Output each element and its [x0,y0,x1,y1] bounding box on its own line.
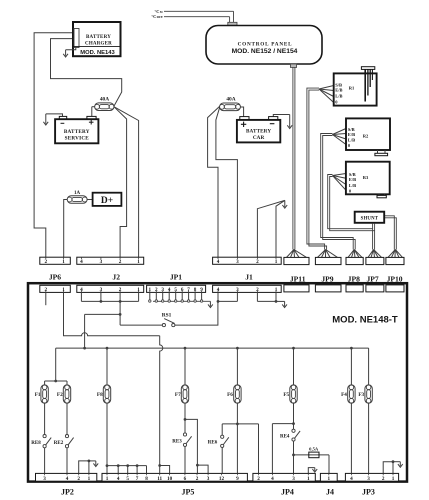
svg-text:JP4: JP4 [281,488,294,497]
svg-text:40A: 40A [100,97,109,103]
svg-text:J2: J2 [112,273,120,282]
svg-text:F6: F6 [227,392,233,398]
svg-text:L/B: L/B [335,94,342,99]
svg-text:F3: F3 [358,392,364,398]
svg-text:RE4: RE4 [280,434,290,439]
svg-text:2: 2 [119,259,122,265]
svg-text:4: 4 [168,287,171,293]
svg-text:2: 2 [155,287,158,293]
svg-text:E/B: E/B [349,177,356,182]
svg-text:1: 1 [62,287,65,293]
svg-text:9: 9 [200,287,203,293]
svg-text:6: 6 [184,476,187,482]
svg-text:F1: F1 [35,392,41,398]
svg-text:3: 3 [100,287,103,293]
svg-text:J4: J4 [326,488,334,497]
svg-text:RE2: RE2 [54,441,64,446]
svg-text:L/B: L/B [349,183,356,188]
svg-text:3: 3 [367,476,370,482]
svg-text:F4: F4 [341,392,347,398]
svg-text:F7: F7 [175,392,181,398]
svg-text:F8: F8 [97,392,103,398]
svg-text:2: 2 [45,287,48,293]
svg-text:BATTERY: BATTERY [246,129,271,135]
svg-text:1: 1 [307,476,310,482]
svg-text:6: 6 [181,287,184,293]
svg-text:1: 1 [137,259,140,265]
svg-text:0,5A: 0,5A [309,447,319,452]
svg-text:1: 1 [275,259,278,265]
svg-text:1: 1 [275,287,278,293]
svg-text:2: 2 [256,259,259,265]
svg-text:MOD. NE152 / NE154: MOD. NE152 / NE154 [232,48,298,55]
svg-text:RS1: RS1 [162,312,172,318]
svg-text:F5: F5 [283,392,289,398]
svg-text:1: 1 [62,259,65,265]
svg-text:2: 2 [196,476,199,482]
svg-text:1: 1 [106,476,109,482]
svg-text:4: 4 [80,259,83,265]
svg-text:2: 2 [119,287,122,293]
svg-text:JP6: JP6 [49,273,61,282]
svg-text:°C w: °C w [155,9,164,14]
svg-text:MOD. NE143: MOD. NE143 [80,50,115,56]
svg-text:J1: J1 [245,273,253,282]
svg-text:JP3: JP3 [362,488,375,497]
svg-text:4: 4 [66,476,69,482]
svg-text:SERVICE: SERVICE [65,135,90,141]
svg-text:CHARGER: CHARGER [85,41,112,46]
svg-text:R2: R2 [363,134,369,139]
svg-text:1: 1 [137,287,140,293]
svg-text:°C ocv: °C ocv [151,14,163,19]
svg-text:2: 2 [257,476,260,482]
svg-text:4: 4 [80,287,83,293]
svg-text:3: 3 [236,259,239,265]
svg-text:BATTERY: BATTERY [86,35,111,40]
svg-text:4: 4 [271,476,274,482]
svg-text:JP2: JP2 [61,488,74,497]
svg-text:RE6: RE6 [208,441,218,446]
svg-text:2: 2 [77,476,80,482]
svg-text:40A: 40A [226,97,235,103]
svg-text:4: 4 [117,476,120,482]
svg-text:9: 9 [236,476,239,482]
svg-text:5: 5 [174,287,177,293]
svg-text:JP1: JP1 [170,273,182,282]
svg-text:F2: F2 [57,392,63,398]
svg-text:RE3: RE3 [172,440,182,445]
svg-text:4: 4 [217,287,220,293]
svg-text:E/B: E/B [348,132,355,137]
svg-text:E/B: E/B [335,87,342,92]
svg-text:4: 4 [217,259,220,265]
svg-text:3: 3 [161,287,164,293]
svg-text:2: 2 [256,287,259,293]
svg-text:RE8: RE8 [31,441,41,446]
svg-text:R3: R3 [363,175,369,180]
svg-text:3: 3 [207,476,210,482]
svg-text:10: 10 [167,476,173,482]
svg-text:BATTERY: BATTERY [64,129,90,135]
svg-text:12: 12 [219,476,225,482]
svg-text:1: 1 [88,476,91,482]
svg-text:1: 1 [392,476,395,482]
svg-text:1: 1 [149,287,152,293]
svg-text:7: 7 [136,476,139,482]
svg-text:D+: D+ [101,196,113,206]
svg-text:2: 2 [45,259,48,265]
svg-text:3: 3 [100,259,103,265]
svg-text:SHUNT: SHUNT [361,216,379,221]
svg-text:5: 5 [126,476,129,482]
svg-text:MOD. NE148-T: MOD. NE148-T [332,315,398,326]
svg-text:L/B: L/B [348,138,355,143]
svg-text:CAR: CAR [253,135,265,141]
svg-text:CONTROL PANEL: CONTROL PANEL [238,42,293,48]
svg-text:3: 3 [43,476,46,482]
svg-text:4: 4 [350,476,353,482]
svg-text:3: 3 [236,287,239,293]
svg-text:7: 7 [187,287,190,293]
svg-text:8: 8 [145,476,148,482]
svg-text:2: 2 [382,476,385,482]
svg-text:1: 1 [328,476,331,482]
svg-text:11: 11 [157,476,162,482]
svg-text:8: 8 [194,287,197,293]
svg-text:R1: R1 [349,86,355,91]
svg-text:JP5: JP5 [182,488,195,497]
svg-text:3: 3 [292,476,295,482]
